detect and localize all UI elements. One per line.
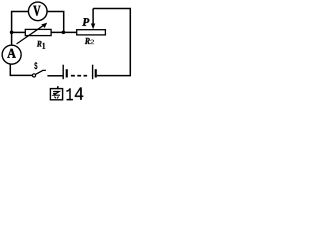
wire (10, 64, 32, 75)
battery cell2 short plate (95, 69, 97, 77)
label figure number 14 (67, 88, 84, 101)
resistor R2 body (77, 30, 106, 35)
wire (47, 12, 64, 33)
voltmeter V (28, 2, 47, 21)
wire (47, 75, 62, 77)
wire (11, 32, 13, 44)
wire (51, 31, 76, 33)
battery cell1 long plate (63, 65, 64, 80)
switch S (32, 70, 46, 77)
battery cell1 short plate (66, 69, 68, 77)
resistor R1 body (25, 29, 51, 35)
label S (34, 62, 37, 69)
node junction mid (62, 31, 66, 35)
wire (97, 75, 131, 77)
ammeter A (2, 45, 21, 64)
battery omitted cells dashes (71, 75, 87, 77)
wire (12, 31, 26, 33)
wire (12, 12, 29, 33)
battery cell2 long plate (92, 65, 93, 80)
label P (82, 18, 89, 26)
slider P arrow (91, 9, 95, 30)
wire (93, 9, 130, 76)
label figure glyph tu (50, 86, 62, 100)
label R1 (37, 41, 45, 49)
node junction left (10, 31, 14, 35)
label R2 (85, 38, 94, 44)
rheostat R1 arrow (17, 23, 48, 44)
